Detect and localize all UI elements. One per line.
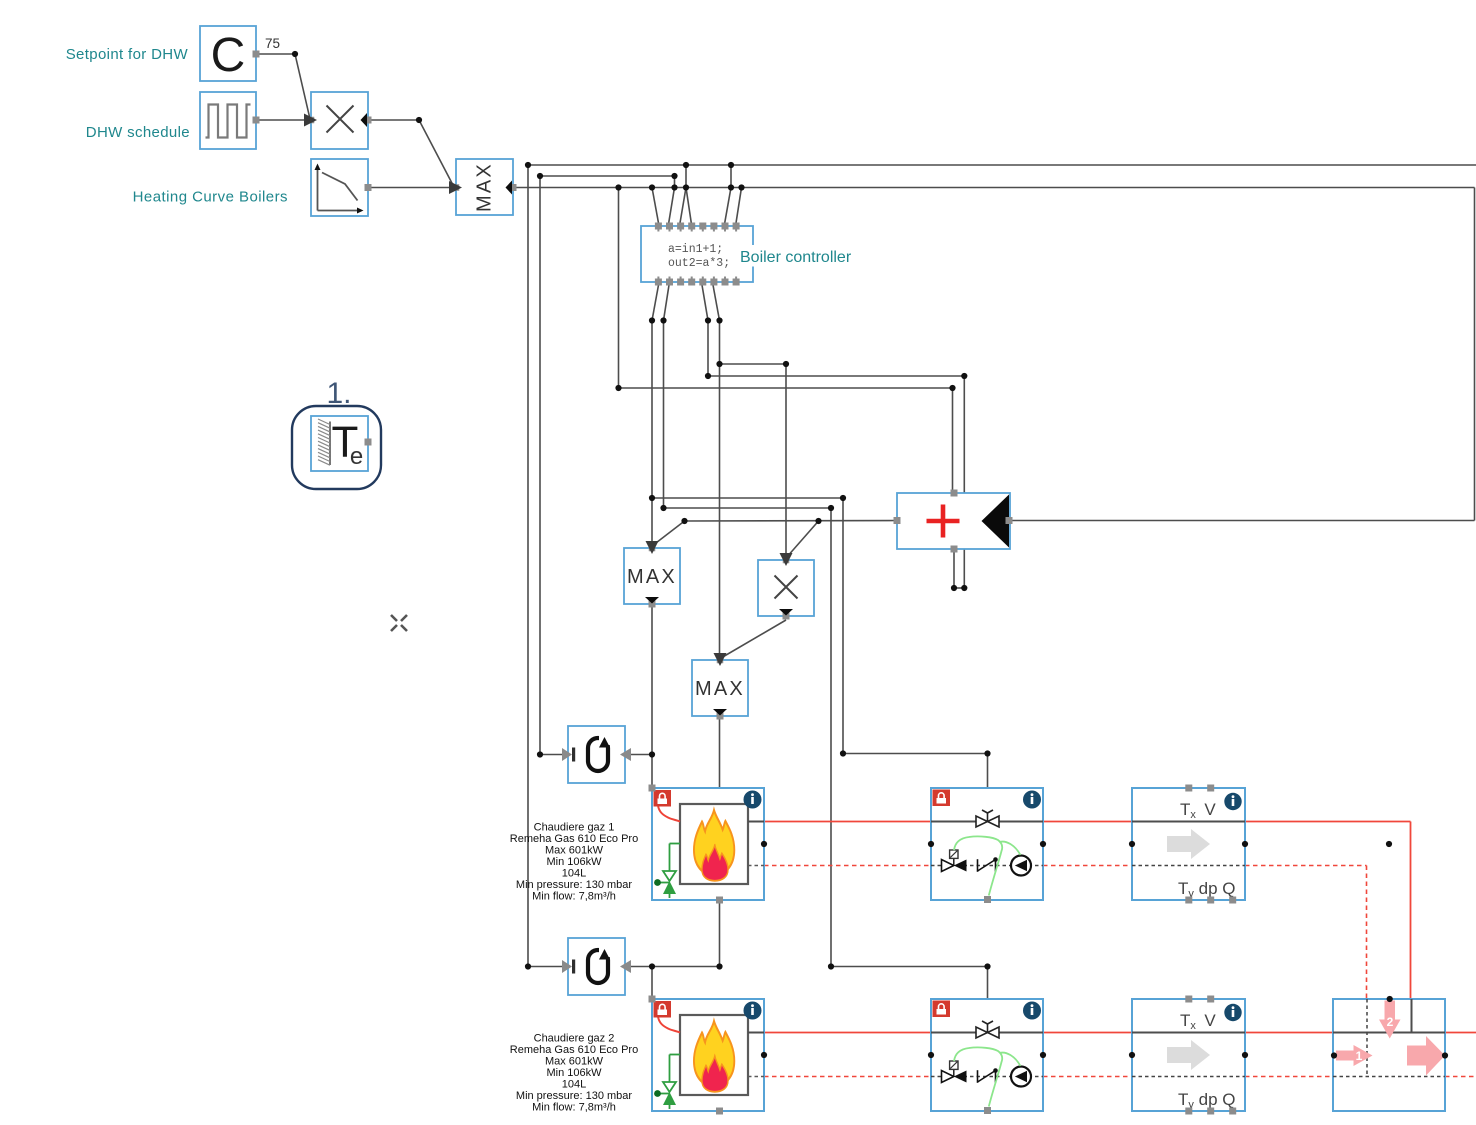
svg-text:Max 601kW: Max 601kW xyxy=(545,845,604,857)
svg-text:Heating Curve Boilers: Heating Curve Boilers xyxy=(133,189,288,206)
svg-text:C: C xyxy=(211,29,246,82)
svg-text:MAX: MAX xyxy=(627,566,677,588)
svg-text:Setpoint for DHW: Setpoint for DHW xyxy=(66,46,189,63)
svg-text:Remeha Gas 610 Eco Pro: Remeha Gas 610 Eco Pro xyxy=(510,833,638,845)
svg-text:a=in1+1;: a=in1+1; xyxy=(668,243,723,256)
svg-text:2: 2 xyxy=(1387,1015,1394,1029)
svg-text:104L: 104L xyxy=(562,868,586,880)
svg-text:104L: 104L xyxy=(562,1079,586,1091)
svg-text:Chaudiere gaz 1: Chaudiere gaz 1 xyxy=(534,822,615,834)
svg-text:Min 106kW: Min 106kW xyxy=(546,856,602,868)
svg-text:Min 106kW: Min 106kW xyxy=(546,1067,602,1079)
svg-text:MAX: MAX xyxy=(695,678,745,700)
svg-text:out2=a*3;: out2=a*3; xyxy=(668,257,730,270)
svg-text:e: e xyxy=(350,443,363,470)
svg-text:Min pressure: 130 mbar: Min pressure: 130 mbar xyxy=(516,879,632,891)
svg-text:75: 75 xyxy=(265,36,280,51)
svg-text:Min flow: 7,8m³/h: Min flow: 7,8m³/h xyxy=(532,891,616,903)
svg-text:1: 1 xyxy=(1356,1049,1363,1063)
svg-text:Boiler controller: Boiler controller xyxy=(740,249,852,266)
svg-text:Min pressure: 130 mbar: Min pressure: 130 mbar xyxy=(516,1090,632,1102)
svg-text:Remeha Gas 610 Eco Pro: Remeha Gas 610 Eco Pro xyxy=(510,1044,638,1056)
svg-text:Chaudiere gaz 2: Chaudiere gaz 2 xyxy=(534,1033,615,1045)
svg-text:Max 601kW: Max 601kW xyxy=(545,1056,604,1068)
svg-text:DHW schedule: DHW schedule xyxy=(86,124,190,141)
svg-text:Tx V: Tx V xyxy=(1180,800,1216,821)
svg-text:Tx V: Tx V xyxy=(1180,1011,1216,1032)
svg-text:MAX: MAX xyxy=(474,162,496,212)
svg-text:Min flow: 7,8m³/h: Min flow: 7,8m³/h xyxy=(532,1102,616,1114)
